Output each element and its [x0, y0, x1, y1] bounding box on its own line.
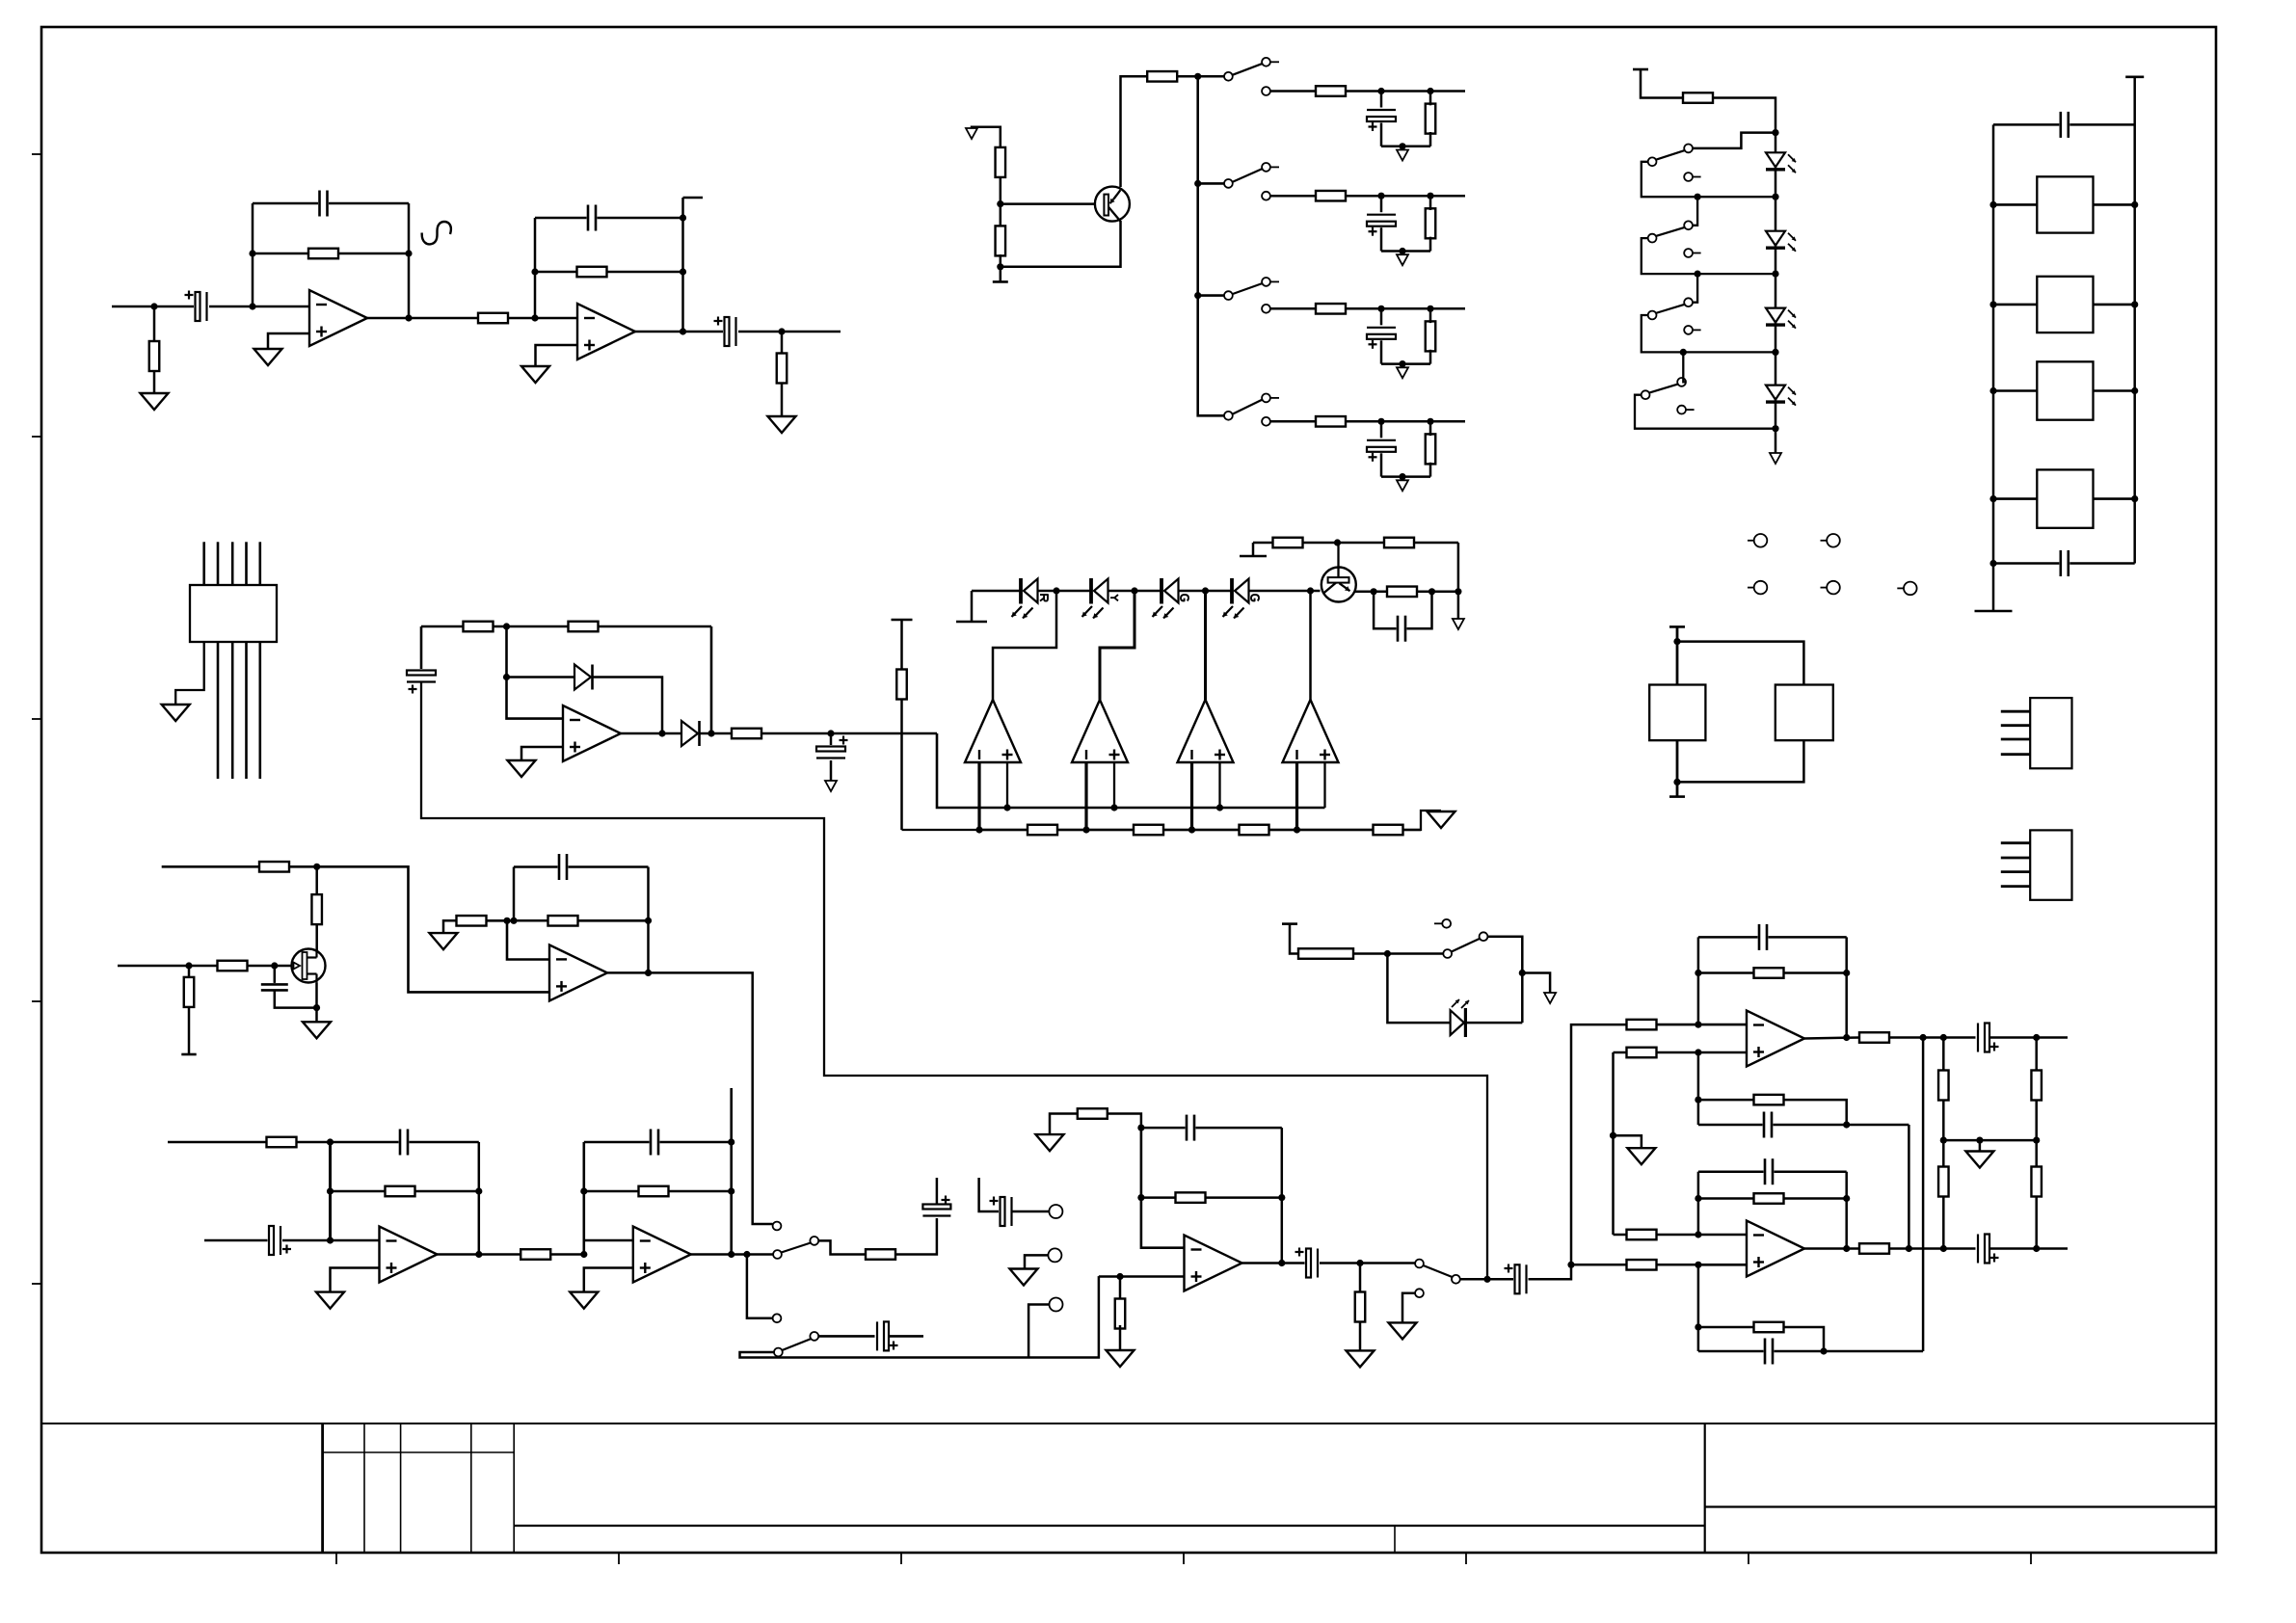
wire RC row 3 bottom [1381, 362, 1430, 365]
op-amp U6 [549, 945, 607, 1000]
ground [521, 366, 549, 383]
node ladder [1680, 349, 1687, 356]
wire RC row 2 node [1346, 195, 1465, 198]
wire R3 to U2 node [508, 317, 577, 320]
wire module M2 right lead [2094, 304, 2135, 306]
node U8 out [1278, 1260, 1285, 1266]
wire fb cap branch [514, 865, 649, 868]
switch SW12 NC contact [1442, 919, 1451, 928]
capacitor C28 [1764, 1156, 1775, 1187]
node left rail [1989, 495, 1996, 502]
wire U9b fb right vertical [1845, 1172, 1848, 1249]
node block9 input [1567, 1262, 1574, 1268]
node [728, 1187, 734, 1194]
switch SW9 NO throw [810, 1237, 818, 1245]
wire U9b fb cap branch [1698, 1170, 1847, 1173]
node cap tap [1377, 418, 1384, 425]
ground [1107, 1350, 1135, 1367]
wire mid network plus vertical [1697, 1052, 1700, 1125]
wire top link to M6 [1677, 642, 1803, 685]
node U7a out [475, 1251, 482, 1258]
wire col1 low [1942, 1196, 1945, 1249]
resistor R26 [1426, 321, 1436, 351]
node bottom link [1989, 560, 1996, 567]
wire SW9 out [818, 1240, 866, 1254]
switch SW7 NO contact [1684, 298, 1693, 306]
wire feedback top branch [253, 202, 409, 205]
diode D1 [574, 665, 591, 690]
title block table mid horizontal [323, 1451, 515, 1453]
module M3 [2037, 361, 2093, 419]
node U9b minus [1695, 1231, 1701, 1237]
op-amp U2 [577, 304, 635, 359]
resistor R31 [184, 977, 195, 1007]
ground small top left [966, 128, 977, 139]
wire RC row 3 node [1346, 307, 1465, 310]
wire plus divider [1119, 1277, 1122, 1303]
ground [570, 1292, 598, 1309]
frame tick bottom 4 [1183, 1553, 1185, 1564]
wire drain lead [315, 924, 318, 950]
wire ladder feed [1641, 69, 1683, 98]
node right rail [2131, 387, 2138, 394]
wire col2 low [2035, 1196, 2038, 1249]
rail stub [1669, 625, 1685, 628]
node U2 fb right [680, 268, 686, 275]
wire R50 to minus node [1656, 1234, 1747, 1237]
node left rail [1989, 201, 1996, 208]
rail stub [2125, 76, 2144, 79]
module M6 [1775, 685, 1833, 741]
node gnd tap [1610, 1132, 1616, 1139]
wire bus tap 3 [1198, 294, 1228, 297]
capacitor C18 [650, 1127, 660, 1158]
resistor R35 [267, 1137, 297, 1148]
wire col2 [2035, 1038, 2038, 1072]
wire cap to source [275, 991, 317, 1008]
wire U8 output [1242, 1262, 1306, 1264]
node U2 fb left [531, 268, 538, 275]
wire U9b fb res branch [1698, 1197, 1847, 1200]
wire LED row left end to rail stub [971, 591, 974, 621]
node rail B taps [975, 826, 982, 833]
wire U6 output [607, 972, 773, 1224]
switch SW7 lever [1656, 305, 1686, 313]
wire gate lead [247, 965, 293, 968]
wire SW8 NO up [1683, 352, 1686, 382]
wire bottom link from M6 [1677, 740, 1803, 782]
ground small [1397, 150, 1408, 161]
node gnd tap [1399, 473, 1405, 480]
resistor R51 U9b plus [1627, 1260, 1657, 1270]
node mid rail gnd [1976, 1137, 1983, 1144]
ground small [1453, 619, 1464, 629]
module M5 [1649, 685, 1705, 741]
wire fb cap branch [1141, 1127, 1282, 1130]
frame tick left 3 [32, 718, 41, 720]
title block mid horizontal line [514, 1525, 1705, 1527]
wire C23 to TP8 [1012, 1211, 1049, 1213]
wire out right [1989, 1036, 2068, 1039]
capacitor C13 [2059, 547, 2069, 579]
wire Q2 emitter to RC [1355, 591, 1389, 594]
wire Q2 collector drop [1457, 543, 1460, 619]
wire R54 to node [1353, 952, 1443, 955]
node RC right [1428, 588, 1435, 595]
switch SW8 NC stub [1686, 409, 1695, 411]
test point TP1 [1748, 540, 1754, 542]
wire out bottom run [1888, 1247, 1977, 1250]
wire block9 lower branch [1571, 1264, 1627, 1266]
wire ground resistor stem [443, 920, 457, 933]
rail stub top [892, 619, 913, 622]
node fb1 top [327, 1138, 334, 1145]
title block top line [41, 1423, 2216, 1424]
resistor R17 [996, 147, 1006, 177]
wire U2 feedback right vertical [681, 198, 684, 332]
wire SW11 out [1460, 1278, 1515, 1281]
node [1920, 1034, 1927, 1041]
test point TP8 [1049, 1205, 1062, 1218]
resistor R42 [1115, 1299, 1126, 1329]
node mute in [1384, 950, 1391, 957]
wire left rail [1992, 124, 1995, 611]
wire res leads 2 [1429, 196, 1432, 210]
resistor R52 series [1859, 1243, 1889, 1254]
capacitor C6 smoothing polarized [814, 745, 848, 760]
capacitor C9 polarized [1364, 212, 1399, 227]
node inverting input U1 [249, 303, 255, 309]
wire U7b plus to ground [584, 1268, 633, 1292]
node gnd tap [1399, 143, 1405, 149]
node source [313, 1004, 320, 1011]
node res tap [1427, 88, 1433, 94]
wire SW5 common to next node [1642, 162, 1775, 197]
wire gnd stub [1522, 973, 1550, 994]
wire U5a minus to rail [977, 762, 980, 830]
wire feedback right vertical [408, 203, 411, 318]
node [327, 1187, 334, 1194]
wire col1 [1942, 1038, 1945, 1072]
switch SW6 NO contact [1684, 221, 1693, 229]
wire source to ground [315, 982, 318, 1022]
ground [430, 933, 458, 949]
wire RC row 1 bottom [1381, 146, 1430, 148]
wire U9b fb left vertical [1697, 1172, 1700, 1235]
wire Q2 base rail top [1253, 542, 1458, 545]
wire R46 to plus node [1656, 1051, 1747, 1054]
switch SW12 throw [1480, 932, 1488, 941]
switch SW1 NO stub [1270, 61, 1279, 63]
wire fb2 right vertical [730, 1088, 733, 1255]
ground [316, 1292, 344, 1309]
wire U8 plus input [1099, 1275, 1185, 1278]
wire mid rail [1943, 1139, 2036, 1142]
wire U9a fb res branch [1698, 971, 1847, 974]
wire fb res branch [1141, 1196, 1282, 1199]
wire module M1 left lead [1993, 203, 2037, 206]
rail stub [993, 280, 1008, 283]
wire fb1 cap branch [331, 1141, 479, 1144]
title block table vertical 2 [363, 1423, 365, 1553]
wire module M4 right lead [2094, 497, 2135, 500]
resistor R36 [386, 1186, 415, 1197]
wire out run [1888, 1036, 1977, 1039]
LED D5 G [1163, 578, 1179, 603]
node [2033, 1034, 2040, 1041]
switch SW3 lever [1233, 283, 1264, 294]
switch SW1 NC contact [1262, 87, 1270, 95]
connector J1 [2001, 710, 2030, 713]
wire stage1 upper input [168, 1141, 267, 1144]
resistor R34 feedback [548, 916, 578, 926]
MOSFET Q3 [292, 949, 326, 983]
wire LED to corner [1467, 1022, 1522, 1024]
ground [141, 393, 169, 410]
frame tick bottom 1 [335, 1553, 337, 1564]
switch SW11 throw [1452, 1275, 1460, 1284]
switch SW2 lever [1233, 169, 1264, 182]
wire TP8 cap branch [979, 1178, 1001, 1211]
test point TP5 [1897, 587, 1904, 589]
wire U5b minus to rail [1084, 762, 1087, 830]
switch SW4 common contact [1224, 412, 1233, 420]
node mute gnd tap [1519, 970, 1526, 976]
resistor R50 U9b minus [1627, 1230, 1657, 1240]
capacitor C7 [1397, 613, 1407, 645]
resistor R33 [457, 916, 487, 926]
frame tick bottom 6 [1748, 1553, 1749, 1564]
ground [1965, 1152, 1993, 1168]
resistor R28 [1683, 93, 1713, 103]
switch SW12 NC stub [1434, 922, 1442, 924]
resistor R3 interstage [478, 313, 508, 324]
wire SW7 common to next node [1642, 315, 1775, 352]
wire fb resistor right [577, 919, 649, 922]
resistor R15 [1384, 538, 1414, 548]
rail stub [181, 1053, 196, 1056]
node [1940, 1245, 1947, 1252]
capacitor C14 [258, 983, 291, 992]
frame tick bottom 7 [2030, 1553, 2032, 1564]
switch SW3 NO contact [1262, 278, 1270, 286]
resistor R40 [1078, 1108, 1108, 1119]
wire C4 to load [738, 331, 841, 333]
wire rail stub left drop [1252, 543, 1255, 556]
wire stage1 input [204, 1239, 269, 1242]
sine symbol [422, 222, 451, 244]
test point TP4 [1821, 587, 1828, 589]
wire grounded resistor [1050, 1114, 1079, 1135]
resistor R14 [1273, 538, 1303, 548]
switch SW6 lever [1656, 227, 1686, 236]
title block right horizontal [1705, 1505, 2216, 1507]
wire divider resistor lead [188, 966, 191, 976]
test point TP2 [1821, 540, 1828, 542]
resistor R24 [1426, 104, 1436, 134]
resistor R47 series [1859, 1032, 1889, 1043]
resistor R43 [1355, 1292, 1366, 1322]
wire cross cap branch [1698, 1350, 1923, 1353]
ground [1428, 811, 1455, 828]
test point TP3 [1748, 587, 1754, 589]
resistor R41 feedback [1176, 1192, 1206, 1203]
wire LED branch down [1387, 954, 1451, 1024]
ground [303, 1022, 331, 1038]
capacitor C27 mid [1763, 1109, 1774, 1141]
capacitor C3 feedback U2 [587, 202, 598, 234]
node fb right [645, 918, 652, 924]
wire RC right [1416, 591, 1458, 594]
rail stub [1282, 922, 1297, 925]
rail stub [1240, 555, 1267, 558]
node bottom [1673, 779, 1680, 785]
wire SW11 NC to ground [1402, 1293, 1415, 1323]
resistor R45 feedback [1754, 968, 1784, 978]
wire U2 output [633, 331, 725, 333]
node Q2 top [1334, 539, 1341, 545]
node drain resistor top [313, 864, 320, 870]
switch SW4 NC contact [1262, 417, 1270, 426]
node output RC [1356, 1260, 1363, 1266]
wire fb right vertical [647, 867, 650, 973]
wire to diode D1 [507, 676, 575, 678]
switch SW8 lever [1649, 384, 1679, 392]
comparator U5c [1178, 700, 1234, 762]
wire U3 pin bottom 5 [258, 642, 261, 779]
node ladder [1695, 194, 1701, 200]
wire gnd stem [1979, 1140, 1982, 1151]
wire U3 pin top 3 [231, 542, 234, 585]
resistor R23 [1316, 416, 1346, 427]
op-amp U7b [633, 1227, 691, 1283]
node fb cap level [1137, 1125, 1144, 1131]
switch SW9 NO contact [773, 1222, 782, 1231]
node U2 fb cap right [680, 214, 686, 221]
resistor R18 [996, 226, 1006, 255]
switch SW5 common contact [1648, 157, 1657, 166]
switch SW12 common contact [1443, 949, 1452, 958]
switch SW8 NC contact [1677, 406, 1686, 414]
node output RC [778, 328, 785, 334]
capacitor C5 polarized [404, 669, 439, 684]
node cross res level [1695, 1323, 1701, 1330]
capacitor C12 [2059, 109, 2069, 141]
node route join [1483, 1276, 1490, 1283]
switch SW1 common contact [1224, 72, 1233, 81]
wire divider to rail B [902, 811, 1442, 830]
node mid res level [1695, 1097, 1701, 1104]
resistor R13 chain [1374, 825, 1403, 836]
node smoothing [827, 730, 834, 736]
wire res leads 1 [1429, 92, 1432, 106]
ground [1036, 1134, 1064, 1151]
resistor R10 chain [1028, 825, 1057, 836]
wire SW10 out to cap [818, 1335, 878, 1338]
wire R39 to cap [895, 1215, 937, 1255]
wire fb left vertical [513, 867, 516, 921]
wire rectifier top branch [421, 625, 711, 628]
resistor col1 bottom [1938, 1167, 1949, 1197]
rail stub [1669, 795, 1685, 798]
node U4 output [658, 730, 665, 736]
node left rail [1989, 301, 1996, 307]
switch SW10 throw [810, 1332, 818, 1341]
wire test point branch [1028, 1305, 1049, 1358]
wire top link [1993, 123, 2135, 126]
wire TP7 branch [1025, 1255, 1051, 1268]
wire R35 to fb node [296, 1141, 331, 1144]
wire U9a out feedback drop [1922, 1038, 1925, 1352]
wire U5c plus to rail [1218, 762, 1220, 808]
wire rail B resistor chain [979, 829, 1421, 832]
wire comp4 output [1309, 591, 1312, 700]
wire U9a output [1804, 1038, 1860, 1039]
resistor R11 chain [1134, 825, 1163, 836]
rail stub [1975, 610, 2013, 613]
capacitor C21 feedback [1186, 1112, 1196, 1144]
wire RC row 3 input [1270, 307, 1316, 310]
module M2 [2037, 277, 2093, 333]
wire fb2 res branch [584, 1190, 732, 1193]
switch SW2 NC contact [1262, 192, 1270, 200]
node U9b plus [1695, 1262, 1701, 1268]
switch SW1 lever [1233, 64, 1264, 75]
wire SW6 common to next node [1642, 238, 1775, 274]
node [1137, 1194, 1144, 1201]
wire comp2 output dogleg [1100, 591, 1135, 700]
op-amp U1 [309, 290, 367, 346]
wire RC row 4 input [1270, 420, 1316, 423]
node rectifier out [707, 730, 714, 736]
wire to load resistor [781, 332, 784, 416]
node U7b out [728, 1251, 734, 1258]
ground small [1397, 367, 1408, 378]
wire SW7 NO up [1693, 274, 1697, 303]
title block right divider [1704, 1423, 1706, 1553]
node RC out [1455, 588, 1461, 595]
wire input net IN1 [112, 306, 197, 308]
node U2 output [680, 328, 686, 334]
title block table vertical 4 [470, 1423, 472, 1553]
wire divider bottom [1000, 254, 1002, 281]
node mid rail right [2033, 1137, 2040, 1144]
resistor col2 bottom [2031, 1167, 2042, 1197]
resistor R19 [1147, 71, 1177, 82]
node cross join [1820, 1347, 1827, 1354]
LED D4 Y [1093, 578, 1108, 603]
ground [254, 349, 282, 365]
wire U1 + input to ground [268, 333, 309, 349]
ground [768, 416, 796, 433]
switch SW4 lever [1233, 399, 1264, 413]
node switch branch [743, 1251, 750, 1258]
title block table vertical thick [321, 1423, 324, 1553]
op-amp U7a [380, 1227, 438, 1283]
wire fb1 left vertical [329, 1142, 332, 1240]
switch SW11 NC contact [1415, 1289, 1424, 1297]
switch SW2 common contact [1224, 179, 1233, 188]
title block table vertical 3 [400, 1423, 402, 1553]
node [1843, 1195, 1850, 1202]
wire U3 pin1 to ground [175, 642, 204, 705]
ground [508, 760, 536, 777]
node bus tap 3 [1194, 292, 1201, 299]
op-amp U9b [1747, 1221, 1804, 1277]
wire plus to op [1698, 1264, 1747, 1266]
capacitor C17 input polarized [268, 1223, 283, 1258]
wire rail to resistor [1290, 924, 1298, 954]
